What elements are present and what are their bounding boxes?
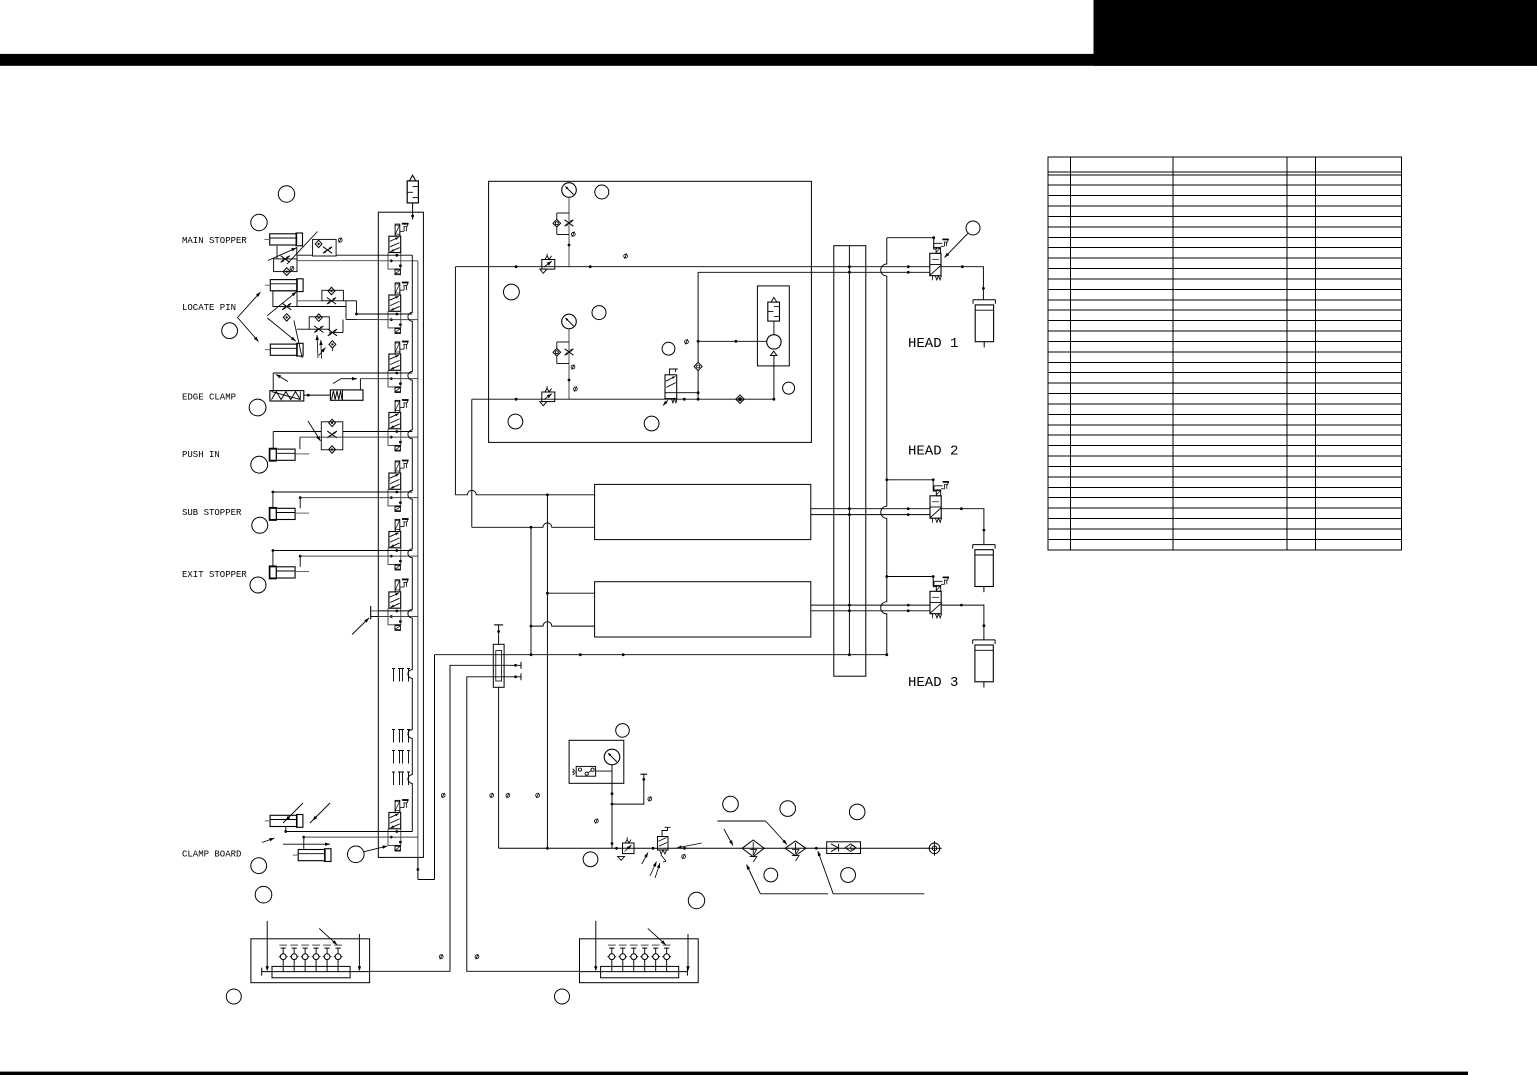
balloon ref 10 (255, 886, 272, 903)
wire: station11 bus (283, 827, 378, 849)
callout polyline B (760, 893, 828, 895)
wire: manifold drain to long supply line (417, 857, 419, 879)
balloon ref 18 (pressure switch) (616, 724, 630, 738)
wire: tank to pump (773, 321, 775, 335)
wire: switch sense line (611, 765, 613, 849)
header rule bar (0, 54, 1537, 66)
regulator REG2 (540, 386, 555, 406)
balloon ref 25 (226, 989, 241, 1004)
air control unit enclosure (489, 181, 812, 442)
wire: to blower1 (455, 490, 594, 494)
wire: blower2 out B (811, 610, 930, 612)
svg-text:EDGE CLAMP: EDGE CLAMP (182, 392, 236, 402)
air tank (768, 302, 780, 321)
wire: P1 drop (454, 267, 456, 495)
vertical duct (834, 246, 866, 677)
wire: main air line (499, 847, 930, 849)
wire: pilot branch head2 (887, 480, 937, 491)
callout polyline A (717, 820, 765, 822)
blower unit HEAD3 (box) (595, 582, 811, 637)
wire: regulated supply line P2 (472, 398, 774, 400)
svg-text:PUSH IN: PUSH IN (182, 450, 220, 460)
wire: head2 to cylinder (941, 509, 984, 545)
pressure gauge G1 (562, 183, 577, 198)
balloon ref 20 (780, 801, 796, 817)
balloon ref 21 (849, 804, 865, 820)
air inlet port (927, 841, 942, 856)
manifold collector line A (408, 255, 412, 831)
balloon ref 3 (locate pin) (222, 323, 238, 339)
pilot 3/2 valve (booster feed) (663, 369, 698, 406)
cylinder exit stopper (269, 566, 309, 579)
svg-text:HEAD 3: HEAD 3 (908, 675, 958, 691)
wire: G2 stem (568, 329, 570, 399)
solenoid valve V6 (EXIT STOPPER) (388, 519, 409, 570)
relief/check bypass R2 (553, 342, 573, 364)
wire: manifold L feed (370, 665, 521, 971)
wire: to blower1 lower (472, 523, 595, 527)
solenoid valve V7 (388, 579, 409, 630)
wire: muffler stem (412, 203, 414, 220)
valve manifold enclosure (378, 212, 423, 857)
pressure gauge G2 (562, 314, 577, 329)
duct center line (848, 246, 850, 655)
cylinder locate pin lower (265, 343, 303, 356)
blower unit HEAD2 (box) (595, 484, 811, 539)
line regulator (618, 837, 634, 860)
wire: main supply run (435, 654, 887, 656)
station7 plugged ports (370, 606, 372, 619)
wire: station4 bus (273, 432, 378, 450)
balloon ref 17 (head1 valve) (966, 221, 980, 235)
flow control (locate pin B) (309, 317, 329, 329)
balloon ref 19 (723, 796, 739, 812)
pilot valve HEAD3 (930, 577, 949, 618)
balloon ref 15 (644, 416, 659, 431)
locate pin valve block (273, 291, 322, 321)
wires locate pin (273, 301, 378, 321)
wire: to blower2 upper (547, 592, 594, 594)
shut-off solenoid valve (658, 827, 671, 862)
balloon ref 27 (688, 892, 704, 908)
solenoid valve V1 (MAIN STOPPER) (388, 224, 409, 275)
label fork arrows (238, 292, 261, 318)
balloon ref 4 (edge clamp) (249, 399, 266, 416)
solenoid valve V2 (LOCATE PIN) (388, 282, 409, 333)
balloon ref 24 (583, 852, 598, 867)
booster unit enclosure (757, 286, 789, 366)
relief/check bypass R1 (553, 213, 573, 235)
cylinder push in (269, 448, 309, 461)
wire: head pilot bus line (698, 271, 930, 273)
balloon ref 14 (508, 414, 523, 429)
balloon ref 2 (main stopper) (251, 214, 267, 230)
wire: main stopper lines (276, 246, 278, 259)
balloon ref 7 (exit stopper) (250, 577, 266, 593)
balloon ref 6 (sub stopper) (252, 517, 268, 533)
parts list table (1048, 157, 1402, 550)
pilot valve HEAD1 (930, 239, 949, 280)
flow control unit (push in) (321, 422, 343, 450)
leader arrows at valve (677, 843, 702, 848)
wire: station6 bus (272, 549, 379, 567)
filter F1 (separator) (742, 840, 764, 862)
svg-text:LOCATE PIN: LOCATE PIN (182, 303, 236, 313)
muffler/filter on manifold top (407, 181, 418, 203)
wire: station3 bus (273, 372, 378, 374)
check valve on line P2 (736, 395, 744, 403)
wire: G1 stem (568, 197, 570, 266)
manifold collector line B (417, 261, 419, 858)
cylinder HEAD2 (973, 545, 995, 593)
wire: station1 bus (297, 254, 313, 256)
wire: head3 to cylinder (941, 605, 984, 640)
wire: riser x698 (697, 272, 699, 399)
balloon ref 9 (251, 858, 267, 874)
balloon ref 26 (555, 989, 570, 1004)
check valve / coupler (827, 842, 861, 854)
wire: blower1 out A (811, 508, 930, 510)
svg-text:HEAD 2: HEAD 2 (908, 443, 958, 459)
svg-text:MAIN STOPPER: MAIN STOPPER (182, 236, 247, 246)
wire: pump suction (773, 356, 775, 400)
blanking plates (392, 669, 410, 786)
wire: drop x547 (546, 495, 548, 849)
solenoid valve V8 (CLAMP BOARD) (388, 800, 409, 851)
flow control unit (main stopper) (313, 239, 337, 256)
balloon ref 8 (clamp board valve) (348, 846, 365, 863)
plugged test port (612, 774, 647, 804)
wire: regulated supply line P1 (455, 266, 929, 268)
balloon ref 13 (gauge G2) (592, 306, 606, 320)
leader arrows (268, 248, 297, 261)
wire: P2 drop (471, 399, 473, 527)
wire: manifold R feed (467, 677, 580, 972)
cylinder HEAD1 (973, 300, 995, 348)
cylinder main stopper (264, 233, 302, 246)
cylinder locate pin upper (265, 279, 303, 292)
svg-text:CLAMP BOARD: CLAMP BOARD (182, 850, 241, 860)
wire: station5 bus (272, 491, 379, 509)
wire: pilot branch head3 (887, 577, 937, 587)
wire: pilot branch head1 (887, 238, 936, 249)
pump suction triangle (770, 351, 777, 355)
flow control (locate pin C) (328, 329, 337, 336)
manifold internal supply lines (378, 255, 418, 837)
flow control (locate pin A) (322, 290, 344, 301)
cylinder clamp board upper (265, 815, 303, 828)
edge clamp spring actuator A (270, 391, 304, 401)
balloon ref 12 (504, 284, 520, 300)
solenoid valve V3 (EDGE CLAMP) (388, 341, 409, 392)
check valve on riser (694, 362, 702, 370)
wire: spring link (304, 394, 331, 396)
leader arrows locate pin (267, 292, 296, 316)
balloon ref 16 (783, 382, 795, 394)
fitting manifold right (580, 921, 699, 983)
wire: pilot supply riser x886.8 (881, 238, 887, 655)
solenoid valve V4 (PUSH IN) (388, 400, 409, 451)
pump circle (767, 335, 781, 349)
edge clamp spring actuator B (330, 390, 363, 400)
callout polyline C (833, 893, 924, 895)
balloon ref 23 (841, 868, 856, 883)
footer rule line (0, 1072, 1468, 1075)
balloon ref 1 (278, 186, 294, 202)
svg-text:HEAD 1: HEAD 1 (908, 336, 958, 352)
cylinder HEAD3 (973, 640, 995, 688)
filter F2 (785, 841, 806, 861)
regulator REG1 (540, 254, 555, 274)
solenoid valve V5 (SUB STOPPER) (388, 460, 409, 511)
pilot valve HEAD2 (930, 482, 949, 523)
wires locate pin lower (297, 320, 343, 352)
svg-text:SUB STOPPER: SUB STOPPER (182, 508, 242, 518)
pressure gauge G3 (604, 749, 620, 765)
balloon ref 22 (764, 868, 778, 882)
pressure switch unit enclosure (569, 740, 624, 783)
fitting manifold left (251, 921, 370, 983)
balloon ref 11 (gauge G1) (595, 185, 609, 199)
wire: blower2 out A (811, 604, 930, 606)
wire: pump feed line (698, 340, 767, 342)
leader from balloon (945, 234, 968, 258)
leader arrows clamp board (283, 803, 303, 823)
wire: blower1 out B (811, 514, 930, 516)
svg-text:EXIT STOPPER: EXIT STOPPER (182, 570, 247, 580)
pressure switch (573, 766, 612, 776)
inline filter (493, 625, 504, 848)
balloon ref 5 (push in) (251, 456, 268, 473)
cylinder clamp board lower (293, 849, 331, 862)
speed controller box under cylinder (274, 259, 297, 272)
leader to valve (364, 846, 388, 852)
header title block (black) (1094, 0, 1537, 66)
wire: drop x531 (530, 527, 532, 654)
cylinder sub stopper (269, 508, 309, 521)
wire: head1 to cylinder (941, 267, 983, 300)
balloon ref 15b (booster valve) (662, 342, 675, 355)
wire: to blower2 lower (531, 622, 595, 626)
